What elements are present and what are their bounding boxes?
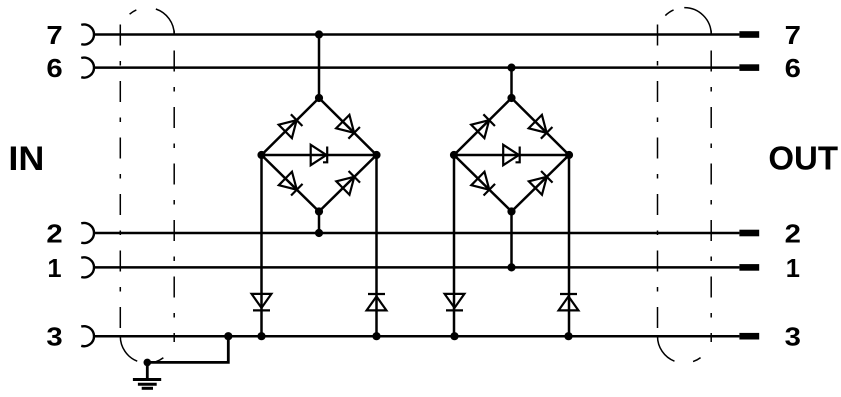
cable shield boundary line (right) bbox=[710, 27, 712, 342]
node V1 left bbox=[257, 151, 265, 159]
zener diode V2z (center, anode left) bbox=[503, 145, 520, 165]
terminal pin OUT-6 bbox=[739, 64, 759, 71]
diode V1a (upper left edge) bbox=[279, 114, 303, 138]
junction net 3 / earth riser bbox=[224, 332, 232, 340]
svg-text:3: 3 bbox=[785, 324, 801, 352]
wire net 3 (IN to OUT) bbox=[94, 335, 740, 338]
cable shield bottom arc bbox=[658, 336, 712, 363]
cable shield top arc bbox=[120, 8, 174, 35]
junction net 7 / V1 top bbox=[315, 30, 323, 38]
cable shield boundary line (left) bbox=[119, 25, 121, 337]
node V1 right bbox=[372, 151, 380, 159]
svg-text:1: 1 bbox=[786, 255, 800, 283]
junction net 1 / V2 bottom bbox=[507, 263, 515, 271]
socket contact IN pin 2 bbox=[81, 223, 94, 243]
cable shield boundary line (left) bbox=[657, 25, 659, 337]
wire net 1 (IN to OUT) bbox=[94, 266, 740, 269]
junction ground node bbox=[144, 359, 152, 367]
zener diode V1z (center, anode left) bbox=[311, 145, 328, 165]
junction net 3 / V6 bbox=[564, 332, 572, 340]
wire V2 right node down to net 3 bbox=[568, 155, 571, 336]
svg-text:3: 3 bbox=[46, 324, 62, 352]
cable shield boundary line (right) bbox=[173, 27, 175, 342]
cable shield top arc bbox=[658, 8, 712, 35]
node V1 bottom bbox=[315, 207, 323, 215]
diode V2c (lower left edge) bbox=[471, 172, 495, 196]
V1 bridge diamond wiring bbox=[262, 98, 377, 212]
svg-text:IN: IN bbox=[8, 140, 44, 178]
diode V4 (cathode up) bbox=[367, 294, 387, 310]
wire V1 right node down to net 3 bbox=[375, 155, 378, 336]
svg-text:2: 2 bbox=[785, 220, 801, 248]
diode V3 (cathode down) bbox=[252, 294, 272, 311]
terminal pin OUT-1 bbox=[739, 264, 759, 271]
diode V2b (upper right edge) bbox=[529, 115, 553, 139]
socket contact IN pin 7 bbox=[81, 25, 94, 45]
junction net 6 / V2 top bbox=[507, 64, 515, 72]
svg-text:7: 7 bbox=[785, 22, 801, 50]
junction net 3 / V4 bbox=[372, 332, 380, 340]
svg-text:7: 7 bbox=[46, 22, 62, 50]
terminal pin OUT-7 bbox=[739, 31, 759, 38]
diode V1c (lower left edge) bbox=[279, 172, 303, 196]
svg-text:6: 6 bbox=[785, 55, 801, 83]
wire V2 bottom node to net 1 bbox=[510, 212, 513, 268]
junction net 3 / V5 bbox=[450, 332, 458, 340]
terminal pin OUT-2 bbox=[739, 230, 759, 237]
terminal pin OUT-3 bbox=[739, 333, 759, 340]
wire V1 top node to net 7 bbox=[318, 35, 321, 99]
diode V2d (lower right edge) bbox=[529, 171, 553, 195]
socket contact IN pin 6 bbox=[81, 58, 94, 78]
V2 bridge diamond wiring bbox=[454, 98, 569, 212]
cable shield bottom arc bbox=[120, 336, 174, 363]
diode V1d (lower right edge) bbox=[336, 171, 360, 195]
node V2 right bbox=[565, 151, 573, 159]
svg-text:1: 1 bbox=[47, 255, 61, 283]
node V1 top bbox=[315, 94, 323, 102]
wire V1 bottom node to net 2 bbox=[318, 212, 321, 234]
wire V2 left node down to net 3 bbox=[453, 155, 456, 336]
diode V1b (upper right edge) bbox=[336, 115, 360, 139]
socket contact IN pin 1 bbox=[81, 257, 94, 277]
svg-text:OUT: OUT bbox=[768, 140, 838, 177]
diode V2a (upper left edge) bbox=[471, 114, 495, 138]
node V2 top bbox=[507, 94, 515, 102]
socket contact IN pin 3 bbox=[81, 326, 94, 346]
wire net 6 (IN to OUT) bbox=[94, 66, 740, 69]
wire V1 left node down to net 3 bbox=[260, 155, 263, 336]
junction net 2 / V1 bottom bbox=[315, 229, 323, 237]
node V2 bottom bbox=[507, 207, 515, 215]
svg-text:2: 2 bbox=[46, 220, 62, 248]
svg-text:6: 6 bbox=[46, 55, 62, 83]
node V2 left bbox=[450, 151, 458, 159]
wire net 7 (IN to OUT) bbox=[94, 33, 740, 36]
diode V6 (cathode up) bbox=[559, 294, 579, 310]
junction net 3 / V3 bbox=[257, 332, 265, 340]
diode V5 (cathode down) bbox=[445, 294, 465, 311]
wire V2 top node to net 6 bbox=[510, 68, 513, 98]
wire shield to earth junction on net 3 bbox=[147, 336, 228, 362]
earth ground symbol bbox=[133, 362, 161, 388]
wire net 2 (IN to OUT) bbox=[94, 232, 740, 235]
